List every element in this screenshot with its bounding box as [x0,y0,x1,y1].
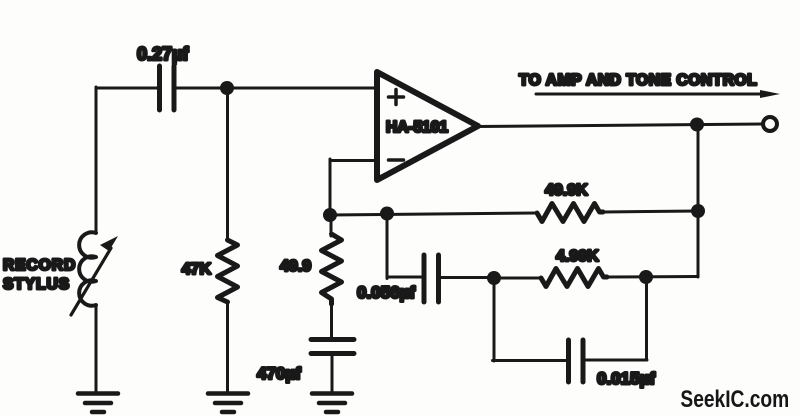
svg-text:49.9: 49.9 [280,258,311,275]
wire lower loop bottom right [585,359,647,362]
wire 0.056uf to node [441,276,494,279]
svg-text:HA-5101: HA-5101 [386,119,448,136]
ground under stylus [78,394,118,413]
resistor 49.9 vertical [322,234,342,304]
op-amp plus sign [389,90,404,105]
wire 4.99K to right corner [607,275,698,279]
wire 47K to ground [226,302,229,392]
wire inverting input vertical [329,159,332,216]
wire stylus to ground [95,305,98,392]
resistor 4.99K horizontal [541,269,607,287]
node junction dot on output [690,118,704,132]
wire inverting node down to 49.9 [330,215,333,236]
wire top input horizontal left segment [96,87,157,90]
wire feedback row from inverting node to 49.9K [329,213,537,215]
capacitor 470uf plates [311,340,354,354]
node junction dot right of 4.99K [639,270,653,284]
arrow to amp and tone control [536,90,780,98]
capacitor 0.015uf plates [569,340,584,382]
wire node to 4.99K [494,277,542,280]
wire 470uf to ground [331,356,334,392]
svg-text:470µf: 470µf [257,364,301,383]
node junction dot right feedback [691,204,705,218]
svg-text:47K: 47K [182,261,212,278]
svg-text:0.015µf: 0.015µf [597,369,655,388]
svg-text:SeekIC.com: SeekIC.com [680,385,789,413]
wire left vertical from top corner down to stylus coil [95,87,98,233]
output terminal open circle [763,117,777,131]
capacitor C 0.27uf plates [160,66,175,110]
node junction dot left of 4.99K [487,271,501,285]
svg-text:49.9K: 49.9K [545,182,588,199]
wire lower loop left vertical [493,278,496,361]
svg-text:0.27µf: 0.27µf [137,44,189,64]
record stylus coil [79,232,96,305]
op-amp U1 HA-5101 triangle [377,72,478,180]
wire op-amp output to terminal [477,124,770,127]
svg-text:0.056µf: 0.056µf [357,283,415,302]
wire junction down to 47K [226,88,229,240]
ground under 470uf [312,394,352,413]
capacitor 0.056uf plates [424,255,439,302]
svg-text:4.99K: 4.99K [556,248,599,265]
wire 0.056 branch horizontal [387,276,422,279]
wire 49.9K to right vertical [603,211,698,212]
ground under 47K [208,394,248,413]
wire 0.056 branch vertical [386,213,389,279]
resistor 49.9K horizontal [537,204,603,222]
node junction dot 0.056 branch takeoff [380,207,394,221]
wire inverting input stub [330,159,378,162]
op-amp minus sign [389,158,404,162]
resistor 47K vertical [218,240,238,302]
svg-text:STYLUS: STYLUS [3,276,70,293]
wire lower loop right vertical [645,277,648,360]
record stylus arrow [71,236,118,315]
node junction dot inverting corner [323,208,337,222]
svg-text:TO AMP AND TONE CONTROL: TO AMP AND TONE CONTROL [519,72,757,89]
svg-text:RECORD: RECORD [3,257,76,274]
wire lower loop bottom left [493,359,567,362]
wire 49.9 to 470uf [330,304,333,337]
node junction dot at 0.27uf output [220,81,234,95]
wire from capacitor to op-amp + input [176,87,377,90]
wire right vertical from output down [697,125,700,278]
